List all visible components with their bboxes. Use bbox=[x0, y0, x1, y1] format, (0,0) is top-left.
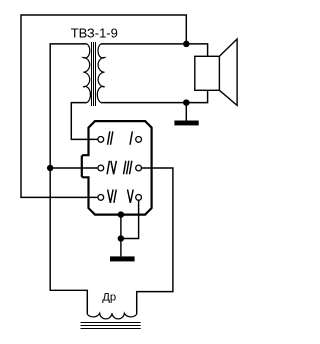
ground bar under speaker bbox=[174, 121, 198, 126]
wire transformer bottom-right to speaker bottom bbox=[101, 90, 208, 102]
tube socket outline bbox=[82, 121, 152, 215]
pin label III bbox=[124, 161, 132, 174]
wire transformer bottom-left to pin II bbox=[71, 103, 98, 140]
pin label II bbox=[108, 131, 113, 144]
wire left bus: transformer top-left terminal down to choke left bbox=[50, 44, 87, 314]
pin I circle bbox=[136, 137, 142, 143]
pin IV circle bbox=[98, 165, 104, 171]
pin V circle bbox=[136, 195, 142, 201]
junction dot speaker top bbox=[183, 41, 190, 48]
pin II circle bbox=[98, 137, 104, 143]
wire transformer top-right to speaker top bbox=[101, 44, 208, 56]
ground under speaker: stem bbox=[185, 103, 187, 121]
wire top bus from left vertical to speaker junction bbox=[21, 15, 186, 197]
pin label IV bbox=[107, 161, 116, 174]
svg-text:Др: Др bbox=[102, 291, 116, 303]
pin label I bbox=[130, 131, 132, 144]
transformer T1 left winding bbox=[83, 44, 90, 103]
transformer T1 right winding bbox=[97, 44, 104, 103]
speaker BA1 cone bbox=[219, 39, 237, 105]
junction dot pin IV bus bbox=[47, 165, 54, 172]
svg-text:ТВЗ-1-9: ТВЗ-1-9 bbox=[71, 26, 118, 41]
wire pin III to choke right bbox=[137, 168, 173, 314]
speaker BA1 body bbox=[195, 56, 220, 90]
junction dot socket bottom edge bbox=[118, 211, 125, 218]
wire socket bottom to ground bbox=[120, 215, 122, 257]
wire pin V down to ground node bbox=[121, 200, 139, 238]
wire pin IV branch bbox=[50, 167, 98, 169]
pin III circle bbox=[136, 165, 142, 171]
pin label VI bbox=[108, 190, 117, 203]
transformer T1 core bbox=[91, 42, 93, 106]
choke Dr core lines bbox=[81, 322, 141, 324]
ground bar under socket bbox=[110, 256, 135, 261]
pin label V bbox=[128, 190, 134, 203]
pin VI circle bbox=[98, 195, 104, 201]
choke Dr winding bbox=[87, 313, 136, 319]
junction dot speaker bottom bbox=[183, 99, 190, 106]
junction dot ground branch bbox=[118, 235, 125, 242]
